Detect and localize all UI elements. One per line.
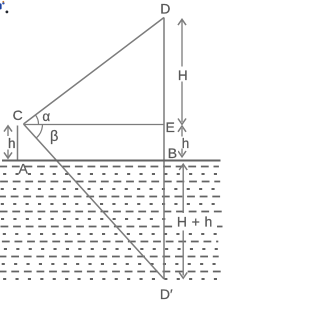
node label E — [166, 121, 176, 134]
svg-text:β: β — [50, 129, 58, 145]
wire vertical line D to D' — [163, 18, 165, 280]
node label B — [167, 147, 179, 159]
svg-text:α: α — [42, 109, 50, 124]
dimension label H + h — [174, 213, 217, 229]
svg-text:H + h: H + h — [177, 214, 213, 230]
svg-text:A: A — [19, 161, 29, 177]
svg-text:E: E — [166, 119, 175, 135]
svg-text:C: C — [13, 107, 23, 123]
dimension arrow h (right) — [181, 128, 183, 137]
water hatching dashes — [0, 167, 224, 280]
svg-text:D′: D′ — [160, 286, 173, 302]
angle arc beta — [36, 124, 42, 138]
wire ray C to D — [24, 18, 165, 125]
svg-text:h: h — [8, 136, 16, 151]
water surface line — [2, 160, 221, 162]
svg-text:h: h — [182, 136, 190, 151]
wire ray C to D' — [24, 124, 165, 279]
dimension arrow h (left) — [7, 128, 9, 137]
wire horizontal C to E — [24, 124, 165, 126]
dimension arrow H (right) — [181, 21, 183, 67]
wire vertical below C — [17, 126, 19, 161]
svg-text:H: H — [178, 68, 188, 83]
stray blue ink mark top-left — [0, 3, 2, 9]
angle arc alpha — [35, 115, 38, 124]
svg-text:D: D — [160, 1, 170, 17]
dimension arrow H+h (right, below water) — [182, 167, 184, 214]
svg-text:B: B — [168, 145, 177, 161]
